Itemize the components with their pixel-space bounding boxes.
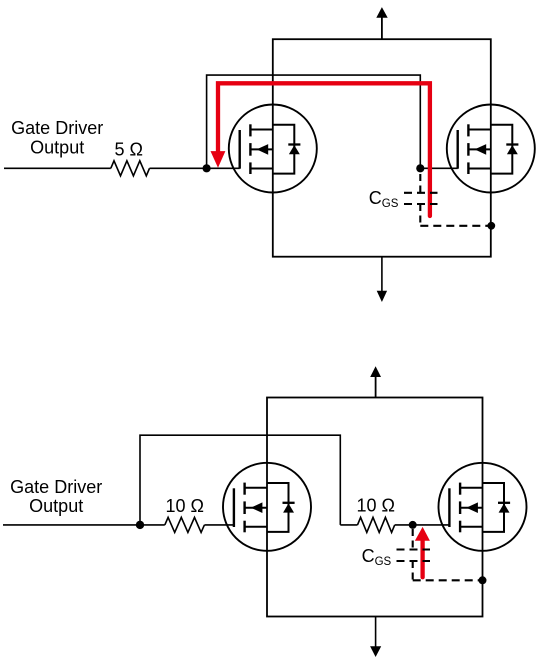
wire: node B to right MOSFET gate (top) [420,167,457,169]
top output arrow (top figure) [381,17,383,40]
wire: cross-coupling loop node A to node B (top) [207,75,421,168]
MOSFET Q1 (top left) [229,105,317,193]
resistor 10 ohm left (bottom) [165,517,205,532]
drain-source bus rectangle (bottom) [267,398,483,617]
svg-text:CGS: CGS [369,188,399,210]
svg-text:Gate Driver: Gate Driver [10,477,102,497]
resistor 10 ohm right (bottom) [358,517,395,532]
node A junction dot (top) [203,164,211,172]
MOSFET Q2 (top right) [447,105,535,193]
wire: gate driver output lead (bottom) [3,524,165,526]
svg-text:CGS: CGS [362,546,392,568]
source node dot (bottom right) [479,576,487,584]
red parasitic gate current path (top) [218,83,430,216]
wire: resistor to node A and left MOSFET gate (top) [150,167,240,169]
wire: gate driver output lead (top) [4,167,111,169]
MOSFET Q3 (bottom left) [223,463,311,551]
svg-text:Output: Output [29,496,83,516]
source node dot (top right) [487,222,495,230]
wire: left resistor to left MOSFET gate (bottom) [204,524,234,526]
svg-text:Output: Output [30,138,84,158]
resistor 5 ohm (top) [111,161,150,176]
svg-text:10 Ω: 10 Ω [166,496,204,516]
bottom output arrow (top figure) [381,257,383,292]
capacitor CGS (bottom, dashed parasitic) [397,529,483,580]
svg-text:5 Ω: 5 Ω [115,139,143,159]
top output arrow (bottom figure) [375,376,377,398]
wire: feed-forward loop from node C over to second resistor (bottom) [140,435,340,525]
drain-source bus rectangle (top) [273,39,491,257]
red gate charging current arrow (bottom) [420,539,424,577]
node C junction dot (bottom) [136,521,144,529]
node D junction dot (bottom) [409,521,417,529]
node B junction dot (top) [416,164,424,172]
wire: loop drop to right resistor (bottom) [340,524,357,526]
capacitor CGS (top, dashed parasitic) [404,174,491,226]
bottom output arrow (bottom figure) [375,617,377,649]
svg-text:Gate Driver: Gate Driver [11,118,103,138]
svg-text:10 Ω: 10 Ω [357,496,395,516]
MOSFET Q4 (bottom right) [439,463,527,551]
wire: right resistor to node D and right MOSFET gate (bottom) [395,524,450,526]
